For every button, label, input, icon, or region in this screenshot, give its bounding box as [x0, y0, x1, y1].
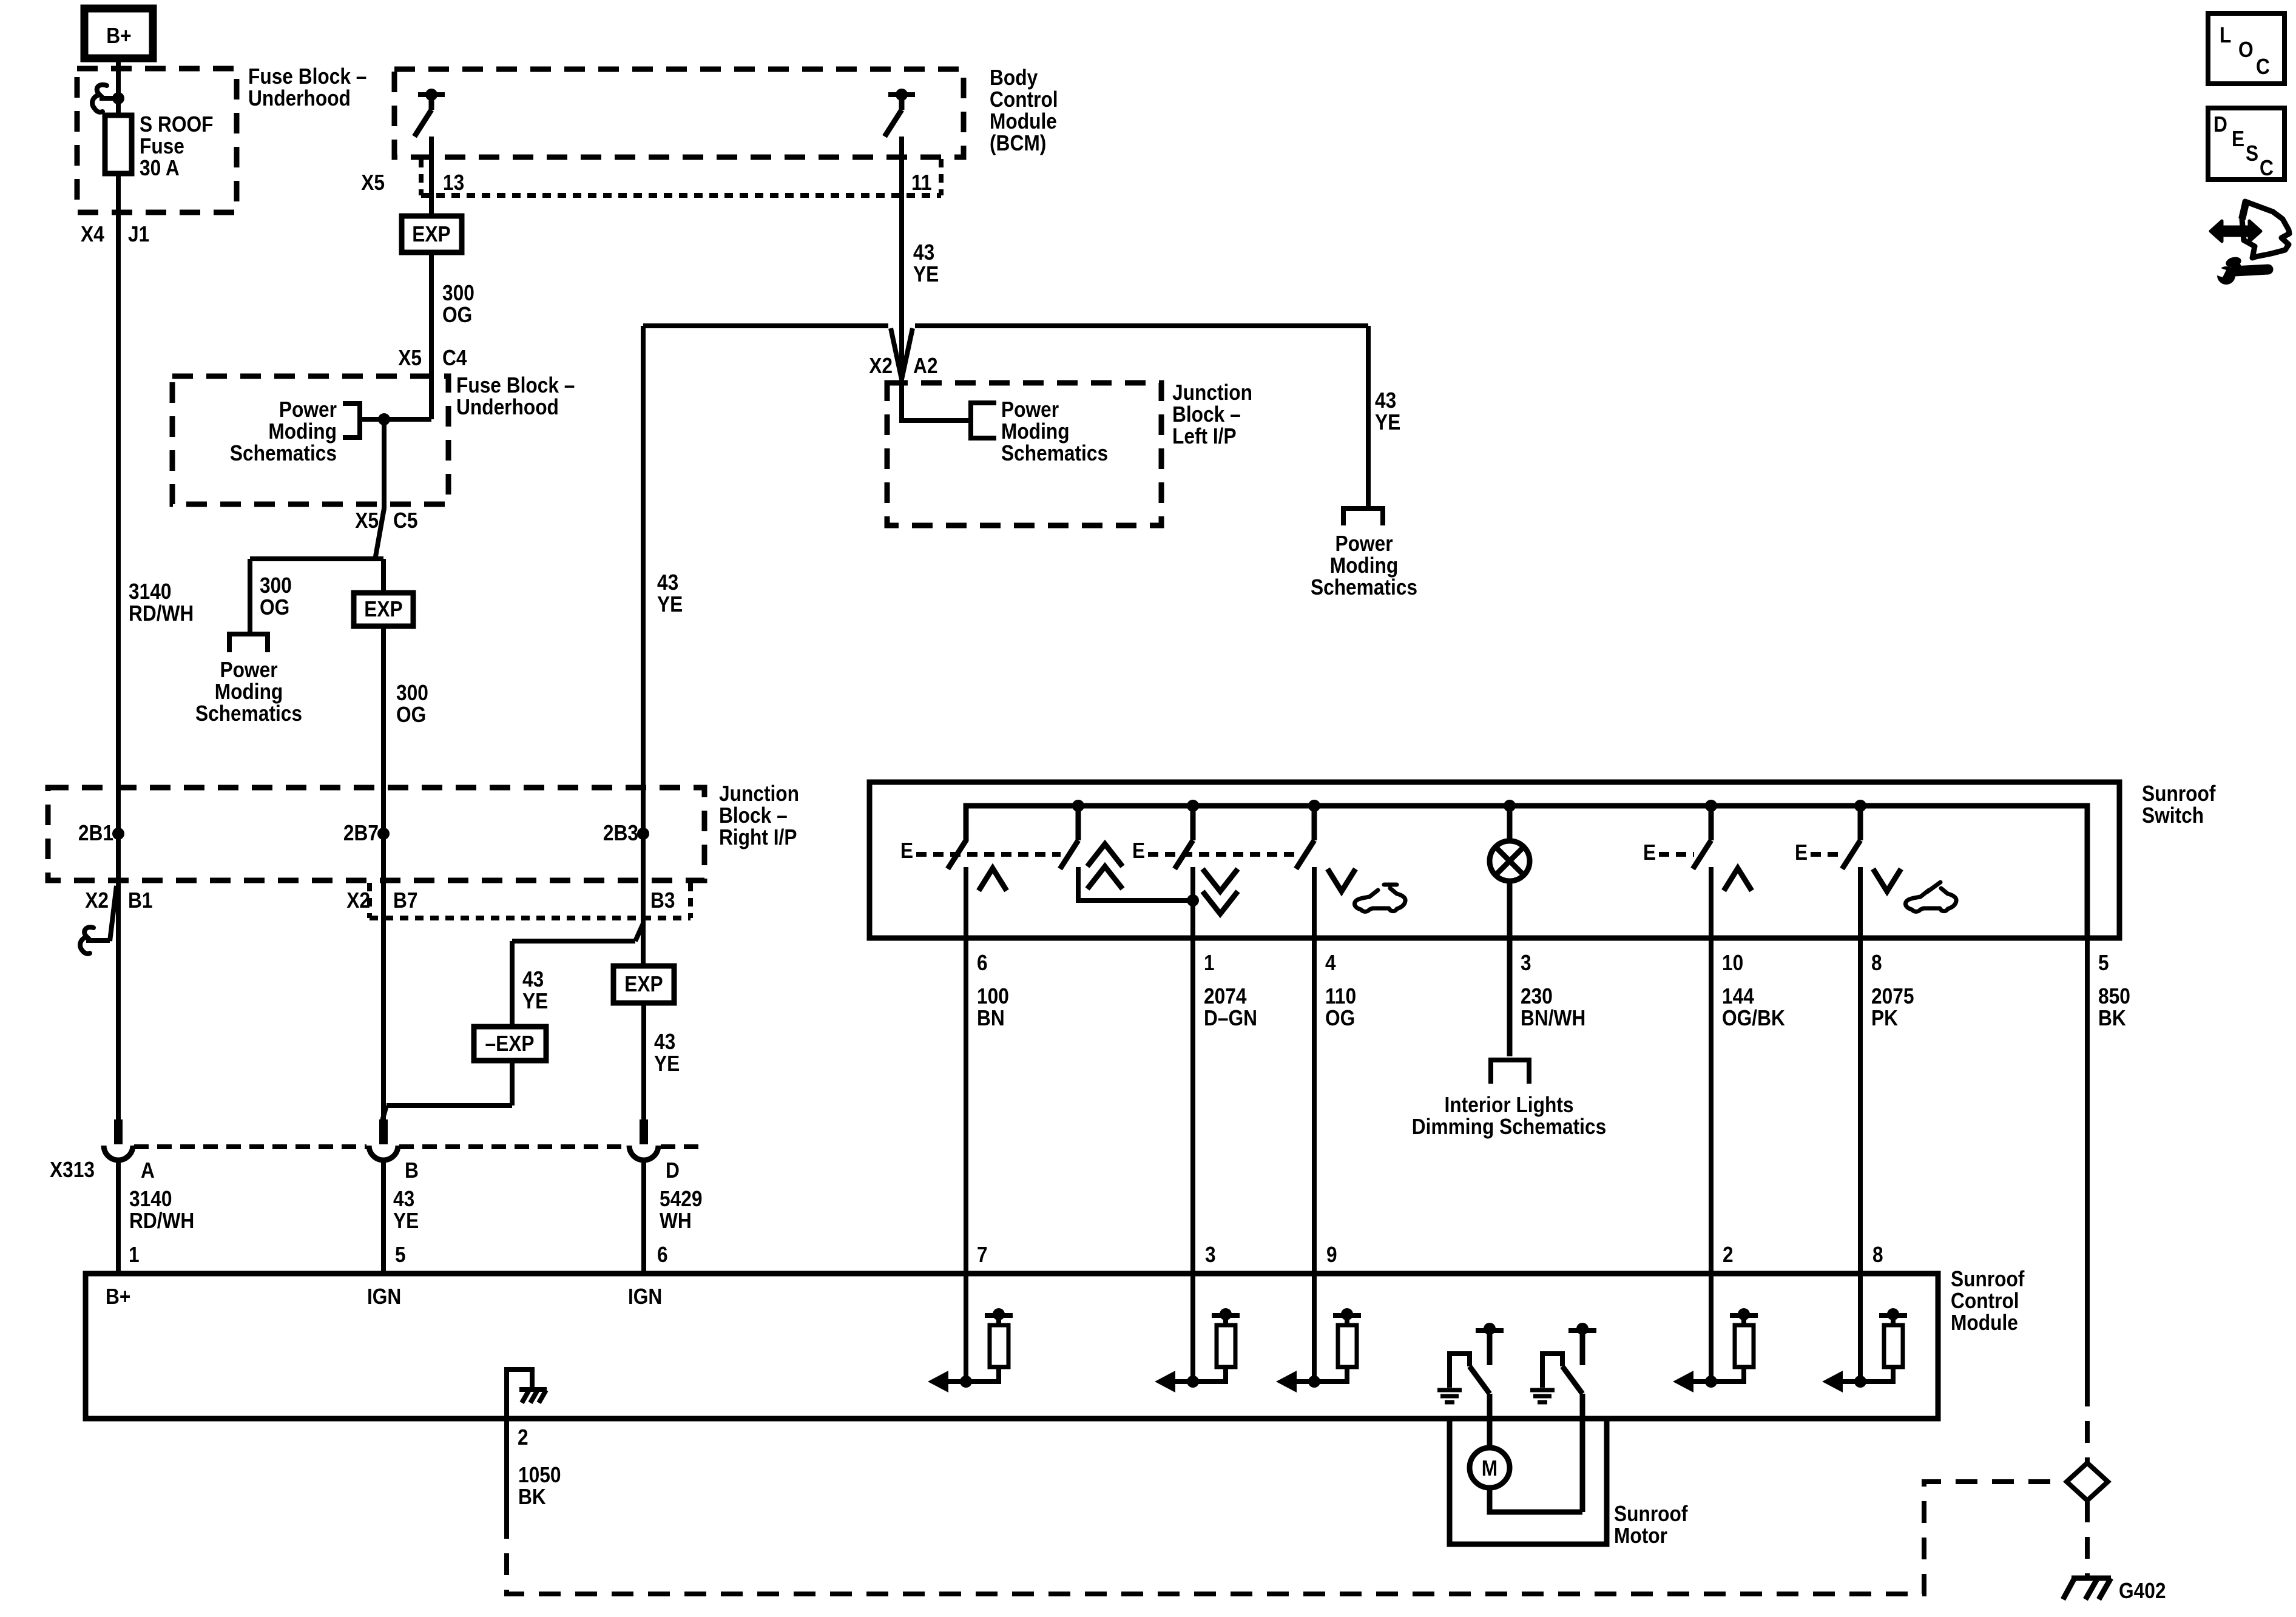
svg-text:300: 300: [442, 280, 474, 305]
bus wire 43 YE horizontal: [643, 323, 888, 328]
svg-text:43: 43: [654, 1029, 675, 1054]
BCM internal switch (pin 11 output): [885, 89, 915, 137]
svg-text:13: 13: [443, 170, 464, 195]
V splice at BCM pin 11 wire: [891, 328, 913, 379]
svg-text:M: M: [1482, 1456, 1497, 1480]
wire BCM pin13 to EXP: [429, 137, 434, 216]
svg-text:100: 100: [977, 984, 1009, 1008]
dashed 850 BK to splice: [2085, 1385, 2090, 1462]
power symbol B+: [84, 8, 153, 58]
svg-text:B7: B7: [393, 888, 418, 913]
node junction dot 300 OG split: [378, 413, 390, 425]
svg-text:EXP: EXP: [624, 971, 663, 996]
svg-text:BK: BK: [518, 1484, 546, 1509]
wire tie to 300 OG node: [360, 417, 431, 422]
svg-text:OG: OG: [396, 702, 426, 727]
svg-text:YE: YE: [657, 592, 683, 616]
wire 850 BK from switch pin5: [2085, 939, 2090, 1385]
wire 1050 BK below module: [504, 1419, 509, 1517]
svg-text:X313: X313: [50, 1157, 95, 1182]
double chevron up (express): [1087, 844, 1123, 866]
svg-text:Moding: Moding: [268, 419, 337, 444]
svg-text:6: 6: [657, 1242, 668, 1267]
svg-text:5: 5: [2098, 950, 2109, 975]
switch blade pin6 (up): [948, 840, 966, 869]
svg-text:3: 3: [1521, 950, 1531, 975]
svg-text:Power: Power: [1335, 531, 1393, 556]
svg-text:C4: C4: [442, 345, 467, 370]
svg-text:B3: B3: [650, 888, 675, 913]
module input sense pin 8: [1822, 1308, 1907, 1393]
wire EXP3 down to X313 D (43 YE): [641, 1003, 646, 1119]
svg-text:S ROOF: S ROOF: [140, 112, 214, 137]
wire A2 into junction block: [902, 379, 971, 420]
node 2B1: [112, 828, 124, 840]
node 2B3: [637, 828, 649, 840]
branch 43 YE to -EXP: [635, 923, 643, 941]
wire branch 300 OG to power moding: [250, 556, 383, 561]
svg-text:OG/BK: OG/BK: [1722, 1005, 1785, 1030]
lamp off-page bracket to interior lights: [1491, 1060, 1529, 1084]
svg-text:YE: YE: [654, 1051, 680, 1076]
switch blade pin10 (up): [1709, 806, 1714, 840]
X313 connector row dotted line: [134, 1144, 366, 1149]
svg-text:43: 43: [657, 570, 678, 595]
svg-text:Fuse Block –: Fuse Block –: [248, 64, 366, 89]
connector row fine dashed (B7 B3): [367, 883, 372, 918]
motor M: [1470, 1448, 1582, 1512]
svg-text:X5: X5: [355, 508, 379, 533]
connector clip symbol at B1: [80, 927, 93, 954]
svg-text:S: S: [2246, 141, 2258, 166]
svg-text:Underhood: Underhood: [248, 86, 351, 110]
svg-text:1: 1: [129, 1242, 140, 1267]
svg-text:Motor: Motor: [1614, 1523, 1667, 1548]
splice diamond: [2067, 1463, 2108, 1501]
svg-text:D: D: [666, 1158, 680, 1183]
DESC legend box: [2208, 108, 2284, 180]
svg-text:OG: OG: [442, 302, 472, 327]
switch blade pin4 (down): [1312, 806, 1317, 840]
svg-text:850: 850: [2098, 984, 2130, 1008]
svg-text:EXP: EXP: [412, 221, 450, 246]
svg-text:Block –: Block –: [719, 803, 788, 828]
svg-text:Schematics: Schematics: [230, 441, 337, 465]
svg-text:B1: B1: [128, 888, 153, 913]
svg-text:C5: C5: [393, 508, 418, 533]
svg-text:3140: 3140: [129, 579, 172, 604]
svg-text:Fuse Block –: Fuse Block –: [456, 373, 575, 397]
fuse block underhood box 2 (dashed): [172, 376, 448, 504]
wire 300 OG main down to 2B7: [381, 559, 386, 1119]
motor drive switch left (close/open relay): [1437, 1323, 1504, 1448]
svg-text:7: 7: [977, 1242, 988, 1267]
svg-text:B+: B+: [106, 1284, 130, 1309]
node 2B7: [377, 828, 390, 840]
node junction dot at fuse feed: [112, 92, 124, 104]
legend icon (component view arrows and wrench): [2209, 201, 2289, 285]
wire 43 YE left drop to 2B3: [641, 326, 646, 834]
switch blade pin8 (down): [1858, 806, 1863, 840]
sunroof control module box: [86, 1274, 1938, 1419]
svg-text:2: 2: [1723, 1242, 1734, 1267]
off-page bracket (power moding, right): [1343, 508, 1383, 525]
-EXP box: [474, 1027, 546, 1061]
svg-text:X2: X2: [869, 353, 893, 378]
svg-text:E: E: [1132, 838, 1145, 863]
svg-text:Fuse: Fuse: [140, 133, 184, 158]
svg-text:YE: YE: [1375, 410, 1400, 434]
svg-text:YE: YE: [522, 988, 548, 1013]
svg-text:Junction: Junction: [719, 781, 799, 806]
ground G402: [2063, 1577, 2111, 1599]
svg-text:Underhood: Underhood: [456, 394, 559, 419]
svg-text:4: 4: [1325, 950, 1336, 975]
svg-text:10: 10: [1722, 950, 1743, 975]
svg-text:Module: Module: [1951, 1310, 2018, 1335]
svg-text:C: C: [2260, 155, 2274, 180]
svg-text:43: 43: [522, 967, 544, 991]
svg-text:PK: PK: [1871, 1005, 1898, 1030]
svg-text:OG: OG: [260, 595, 289, 619]
svg-text:G402: G402: [2119, 1578, 2166, 1603]
module input sense pin 2: [1673, 1308, 1758, 1393]
junction block left I/P dashed box: [887, 383, 1161, 525]
svg-text:(BCM): (BCM): [990, 130, 1046, 155]
svg-text:E: E: [1643, 840, 1656, 865]
svg-text:X2: X2: [85, 888, 109, 913]
X313 pin D: [640, 1119, 648, 1144]
svg-text:2B7: 2B7: [343, 820, 379, 845]
svg-text:Power: Power: [220, 657, 277, 682]
BCM X5 connector row (fine dashed): [419, 159, 424, 195]
module input sense pin 9: [1276, 1308, 1361, 1393]
svg-text:110: 110: [1325, 984, 1356, 1008]
svg-text:IGN: IGN: [367, 1284, 401, 1309]
dashed ground path 1050 BK: [507, 1482, 2064, 1594]
chevron up (pin6): [979, 868, 1007, 891]
svg-text:230: 230: [1521, 984, 1553, 1008]
X313 pin B: [379, 1119, 388, 1144]
svg-text:Schematics: Schematics: [1001, 441, 1108, 465]
car icon tilt sunroof: [1905, 882, 1956, 911]
switch blade pin1 (express down): [1190, 806, 1196, 840]
branch wire with clip at B1: [110, 886, 116, 941]
wire EXP down to fuse block 2 (300 OG): [429, 252, 434, 419]
svg-text:8: 8: [1872, 1242, 1883, 1267]
svg-text:YE: YE: [913, 262, 939, 286]
svg-text:D–GN: D–GN: [1204, 1005, 1257, 1030]
svg-text:Junction: Junction: [1172, 380, 1252, 405]
svg-text:B: B: [405, 1158, 419, 1183]
svg-text:WH: WH: [660, 1208, 692, 1233]
svg-text:43: 43: [913, 240, 934, 265]
off-page bracket (power moding, left): [229, 634, 268, 652]
wire 43 YE right drop to power moding: [1366, 326, 1371, 508]
module input sense pin 7: [928, 1308, 1013, 1393]
svg-text:30 A: 30 A: [140, 155, 180, 180]
wire B3 down to EXP: [641, 834, 646, 966]
fuse S ROOF 30A: [105, 115, 132, 174]
svg-text:Power: Power: [1001, 397, 1059, 422]
svg-text:E: E: [2232, 126, 2244, 151]
wire -EXP down and left to B7 wire: [510, 1061, 515, 1106]
svg-text:Dimming Schematics: Dimming Schematics: [1412, 1114, 1606, 1139]
svg-text:Sunroof: Sunroof: [2142, 781, 2216, 806]
wire B+ to fuse J1 (3140 RD/WH feed): [116, 58, 121, 1119]
svg-text:2: 2: [518, 1425, 528, 1450]
svg-text:Schematics: Schematics: [1311, 575, 1417, 599]
svg-text:X5: X5: [398, 345, 422, 370]
svg-text:3: 3: [1205, 1242, 1216, 1267]
svg-text:8: 8: [1871, 950, 1882, 975]
chevron down (pin8): [1873, 869, 1901, 891]
svg-text:300: 300: [396, 680, 428, 705]
svg-text:Left I/P: Left I/P: [1172, 424, 1237, 448]
svg-text:Power: Power: [279, 397, 337, 422]
svg-text:43: 43: [1375, 388, 1396, 413]
svg-text:C: C: [2256, 54, 2270, 79]
svg-text:D: D: [2213, 112, 2227, 137]
svg-text:RD/WH: RD/WH: [129, 601, 194, 626]
svg-text:300: 300: [260, 573, 292, 598]
svg-text:1: 1: [1204, 950, 1215, 975]
lamp symbol (illumination): [1490, 806, 1530, 1056]
wire 300 OG down through X5 C5: [376, 419, 384, 559]
svg-text:X4: X4: [81, 221, 104, 246]
svg-text:Sunroof: Sunroof: [1951, 1266, 2025, 1291]
svg-text:RD/WH: RD/WH: [129, 1208, 194, 1233]
svg-text:11: 11: [911, 170, 932, 195]
connector clip symbol at fuse feed: [92, 85, 107, 112]
svg-text:Switch: Switch: [2142, 803, 2204, 828]
svg-text:Sunroof: Sunroof: [1614, 1501, 1688, 1526]
EXP box 2 (300 OG wire): [354, 593, 413, 626]
X313 pin A: [114, 1119, 123, 1144]
bracket power moding (junction block left): [971, 403, 996, 438]
svg-text:O: O: [2238, 37, 2254, 62]
svg-text:IGN: IGN: [628, 1284, 662, 1309]
junction block right I/P dashed box: [48, 788, 704, 880]
svg-text:OG: OG: [1325, 1005, 1355, 1030]
svg-text:BK: BK: [2098, 1005, 2126, 1030]
body control module BCM dashed box: [394, 69, 964, 157]
svg-text:BN/WH: BN/WH: [1521, 1005, 1585, 1030]
switch blade express-up: [1076, 806, 1081, 840]
svg-text:A: A: [141, 1158, 155, 1183]
svg-text:144: 144: [1722, 984, 1754, 1008]
motor drive switch right: [1530, 1323, 1596, 1512]
wire BCM pin11 down (43 YE): [899, 137, 904, 420]
svg-text:–EXP: –EXP: [485, 1031, 535, 1056]
svg-text:2B1: 2B1: [78, 820, 113, 845]
svg-text:Body: Body: [990, 65, 1038, 90]
svg-text:L: L: [2220, 22, 2231, 47]
svg-text:43: 43: [393, 1186, 414, 1211]
svg-text:Block –: Block –: [1172, 402, 1241, 427]
svg-text:9: 9: [1326, 1242, 1337, 1267]
module input sense pin 3: [1155, 1308, 1240, 1393]
svg-text:Control: Control: [990, 87, 1058, 112]
svg-text:BN: BN: [977, 1005, 1005, 1030]
fuse block underhood box (top left): [77, 69, 237, 212]
chevron down (pin4): [1328, 869, 1356, 891]
svg-text:5429: 5429: [660, 1186, 703, 1211]
svg-text:A2: A2: [913, 353, 938, 378]
svg-text:1050: 1050: [518, 1462, 561, 1487]
svg-text:Moding: Moding: [215, 679, 283, 704]
svg-text:Interior Lights: Interior Lights: [1445, 1092, 1574, 1117]
double chevron down: [1203, 869, 1238, 891]
sunroof motor box: [1450, 1419, 1607, 1544]
svg-text:B+: B+: [106, 23, 131, 48]
module ground stub (pin 2 / 1050 BK): [507, 1369, 547, 1419]
svg-text:X2: X2: [346, 888, 370, 913]
svg-text:X5: X5: [361, 170, 385, 195]
svg-text:Moding: Moding: [1001, 419, 1070, 444]
svg-text:2B3: 2B3: [603, 820, 638, 845]
svg-text:Control: Control: [1951, 1288, 2019, 1313]
svg-text:3140: 3140: [129, 1186, 172, 1211]
svg-text:E: E: [900, 838, 913, 863]
sunroof switch internal bus: [966, 806, 2087, 939]
BCM internal switch (pin 13 output): [414, 89, 445, 137]
svg-text:2074: 2074: [1204, 984, 1247, 1008]
svg-text:Module: Module: [990, 109, 1057, 133]
EXP box 3 (B3 wire): [613, 966, 674, 1003]
svg-text:6: 6: [977, 950, 988, 975]
svg-text:E: E: [1795, 840, 1808, 865]
svg-text:5: 5: [395, 1242, 406, 1267]
EXP box (pin 13 wire): [402, 216, 462, 252]
svg-text:Right I/P: Right I/P: [719, 825, 797, 849]
sunroof switch box: [869, 782, 2119, 938]
svg-text:Moding: Moding: [1330, 553, 1399, 578]
svg-text:YE: YE: [393, 1208, 419, 1233]
car icon open sunroof: [1354, 885, 1405, 911]
dashed splice to G402: [2085, 1501, 2090, 1578]
svg-text:EXP: EXP: [364, 596, 402, 621]
svg-text:2075: 2075: [1871, 984, 1914, 1008]
chevron up (pin10): [1724, 868, 1752, 891]
LOC legend box: [2208, 13, 2284, 84]
svg-text:J1: J1: [128, 221, 149, 246]
svg-text:Schematics: Schematics: [195, 701, 302, 726]
